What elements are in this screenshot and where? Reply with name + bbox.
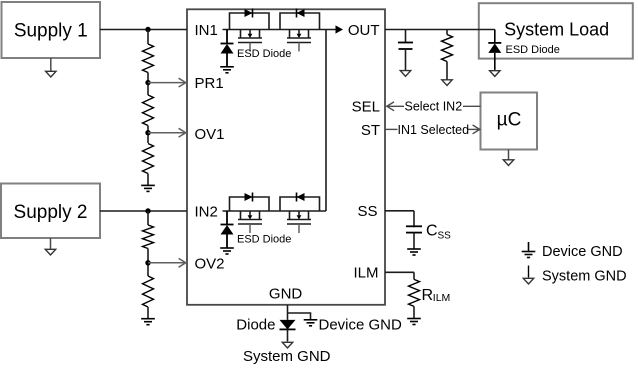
ground device Css <box>407 248 421 250</box>
svg-text:OV2: OV2 <box>195 255 225 272</box>
capacitor Css <box>406 225 422 227</box>
ground device main <box>304 319 318 321</box>
svg-text:ILM: ILM <box>353 265 378 282</box>
node PR1 tap <box>145 80 150 85</box>
node OV2 tap <box>145 260 150 265</box>
body diode loop Q3 <box>230 197 270 211</box>
svg-text:ESD Diode: ESD Diode <box>237 48 291 60</box>
supply 2 box <box>1 184 100 239</box>
wire supply2 gnd <box>50 238 52 250</box>
diode D8 gnd <box>280 320 296 330</box>
esd diode D5 at IN1 <box>226 30 228 44</box>
wire IN2 internal rail <box>223 210 327 212</box>
body diode loop Q4 <box>280 197 320 211</box>
svg-text:IN1: IN1 <box>195 22 218 39</box>
transistor Q2 <box>289 30 291 39</box>
resistor divider2 bottom <box>143 276 154 307</box>
svg-text:PR1: PR1 <box>195 75 224 92</box>
wire <box>147 174 149 186</box>
resistor divider2 top <box>143 225 154 249</box>
wire ILM <box>385 271 414 273</box>
wire <box>147 30 149 45</box>
svg-text:Supply 2: Supply 2 <box>14 202 88 223</box>
svg-text:ESD Diode: ESD Diode <box>237 234 291 246</box>
svg-text:ST: ST <box>361 122 380 139</box>
ground device Rilm <box>407 318 421 320</box>
system load box <box>479 3 633 58</box>
wire arrow to OV2 <box>148 262 185 264</box>
wire <box>147 249 149 277</box>
svg-text:GND: GND <box>269 286 303 303</box>
svg-text:OUT: OUT <box>348 22 380 39</box>
ground device esd1 <box>220 66 234 68</box>
wire diode to system gnd <box>287 329 289 341</box>
svg-text:IN1 Selected: IN1 Selected <box>398 123 470 137</box>
svg-text:OV1: OV1 <box>195 126 225 143</box>
power mux IC U1 <box>187 9 385 305</box>
node supply2 junction <box>145 208 150 213</box>
wire OUT to system load <box>385 29 495 31</box>
ground system uc <box>503 160 513 166</box>
wire <box>147 211 149 225</box>
svg-text:R: R <box>422 287 434 304</box>
svg-text:µC: µC <box>497 110 522 131</box>
esd diode D6 at IN2 <box>226 211 228 225</box>
wire <box>147 307 149 319</box>
ground system main <box>282 342 292 348</box>
svg-text:Diode: Diode <box>236 317 275 334</box>
wire supply2 to IN2 <box>100 210 187 212</box>
wire SS <box>385 210 414 212</box>
esd diode D7 system load <box>494 30 496 43</box>
svg-text:System GND: System GND <box>243 348 331 365</box>
ground system supply2 <box>45 249 55 255</box>
transistor Q3 <box>240 211 242 220</box>
ground system C1 <box>400 71 410 77</box>
ground system supply1 <box>46 71 56 77</box>
wire IN1 internal rail <box>223 29 337 31</box>
svg-text:ILM: ILM <box>433 292 451 304</box>
svg-text:IN2: IN2 <box>195 203 218 220</box>
wire uc gnd <box>508 150 510 161</box>
body diode D3 <box>245 193 253 201</box>
wire IN2 rail joins OUT node <box>325 30 327 212</box>
wire <box>147 126 149 144</box>
wire SEL with arrow <box>387 102 394 111</box>
body diode D1 <box>245 9 253 17</box>
transistor Q1 <box>240 30 242 39</box>
capacitor C1 out <box>405 30 407 43</box>
wire arrow to OV1 <box>148 132 185 134</box>
svg-text:Select IN2: Select IN2 <box>405 100 463 114</box>
ground device divider1 <box>141 184 155 186</box>
svg-text:System GND: System GND <box>542 269 627 285</box>
wire arrow to PR1 <box>148 82 185 84</box>
body diode D4 <box>297 193 305 201</box>
svg-text:Device GND: Device GND <box>319 317 403 334</box>
wire supply1 to IN1 <box>100 29 187 31</box>
svg-text:SS: SS <box>357 203 377 220</box>
ground device esd2 <box>220 247 234 249</box>
resistor divider1 middle <box>143 95 154 126</box>
wire GND tee to device gnd <box>288 313 311 320</box>
wire ST <box>385 128 398 130</box>
svg-text:ESD Diode: ESD Diode <box>506 44 560 56</box>
ground device divider2 <box>141 318 155 320</box>
svg-text:Supply 1: Supply 1 <box>14 21 88 42</box>
ground system R1 <box>442 80 452 86</box>
wire GND pin down <box>287 305 289 320</box>
svg-text:C: C <box>426 222 438 239</box>
body diode D2 <box>297 9 305 17</box>
transistor Q4 <box>289 211 291 220</box>
svg-text:Device GND: Device GND <box>542 244 623 260</box>
ground system esd load <box>490 71 500 77</box>
body diode loop Q1 <box>230 13 270 30</box>
resistor divider1 bottom <box>143 144 154 174</box>
resistor R1 out load <box>446 30 448 35</box>
legend device gnd symbol <box>528 242 530 252</box>
resistor Rilm <box>409 279 420 306</box>
svg-text:SEL: SEL <box>352 99 380 116</box>
wire <box>147 73 149 96</box>
body diode loop Q2 <box>280 13 320 30</box>
microcontroller box U2 <box>481 93 538 150</box>
resistor divider1 top <box>143 44 154 73</box>
node supply1 junction <box>145 27 150 32</box>
arrow OUT node <box>336 25 344 33</box>
svg-text:System Load: System Load <box>504 19 609 39</box>
svg-text:SS: SS <box>438 231 452 242</box>
wire supply1 gnd <box>50 58 52 72</box>
node OV1 tap <box>145 130 150 135</box>
supply 1 box <box>2 2 101 58</box>
legend system gnd symbol <box>528 266 530 278</box>
